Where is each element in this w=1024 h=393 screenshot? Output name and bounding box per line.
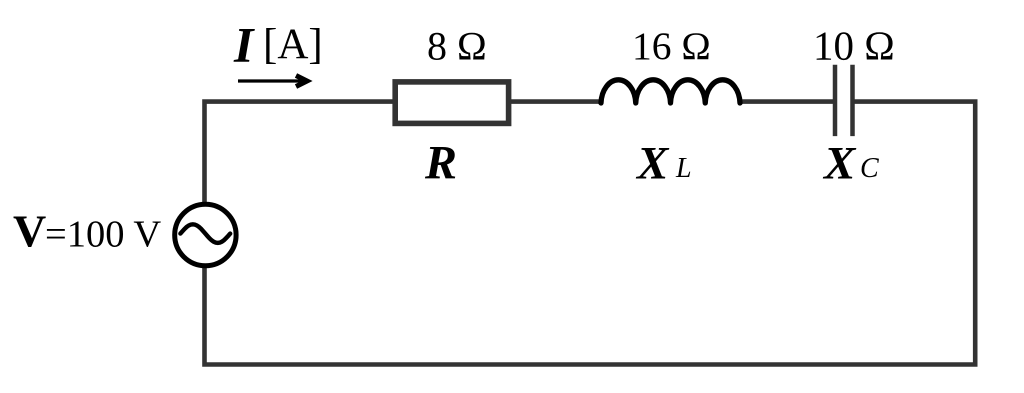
svg-text:16 Ω: 16 Ω [632,24,711,68]
AC source V circle [175,204,236,265]
resistor R (8 ohm box) [395,82,508,124]
svg-text:I: I [233,17,255,73]
svg-text:X: X [822,138,857,190]
inductor XL (4 humps) [601,80,740,103]
capacitor XC plate left [833,65,838,136]
current arrow [238,79,302,82]
svg-text:V: V [13,206,46,257]
wire: main circuit loop (left, bottom, right, top segments) [205,102,976,365]
wire: between inductor and capacitor [740,99,837,104]
svg-text:8 Ω: 8 Ω [427,24,487,69]
svg-text:X: X [635,138,670,190]
svg-text:C: C [860,153,879,184]
capacitor XC plate right [850,65,855,136]
svg-text:[A]: [A] [263,21,323,68]
svg-text:=100 V: =100 V [45,214,161,256]
AC source sine wave [180,224,230,243]
svg-text:L: L [675,153,692,184]
svg-text:R: R [424,137,457,190]
svg-text:10 Ω: 10 Ω [813,23,895,69]
